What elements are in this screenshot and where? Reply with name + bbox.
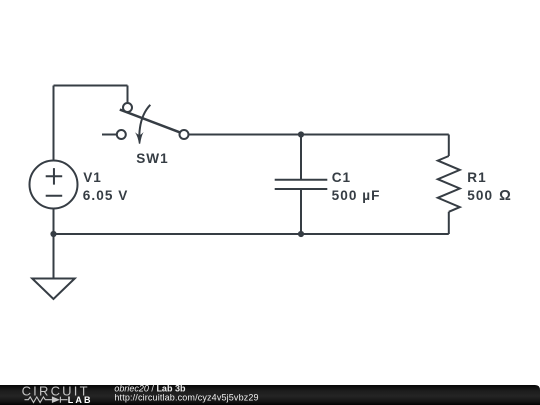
ground symbol	[32, 279, 74, 300]
switch SW1 left throw stub wire	[102, 134, 117, 136]
svg-text:SW1: SW1	[136, 151, 169, 166]
switch SW1 right throw terminal circle	[180, 130, 189, 139]
node A junction dot (C1 top)	[298, 131, 304, 137]
resistor R1 bottom lead	[448, 212, 450, 234]
V1 plus sign	[46, 168, 63, 185]
capacitor C1 top lead	[300, 135, 302, 180]
V1 minus sign	[46, 195, 63, 197]
footer bar	[0, 385, 540, 405]
svg-text:6.05 V: 6.05 V	[83, 188, 129, 203]
svg-text:LAB: LAB	[68, 395, 93, 405]
capacitor C1 bottom plate	[275, 188, 328, 190]
CircuitLab logo resistor-diode squiggle	[25, 397, 68, 403]
node junction dot (V1 minus / ground)	[50, 231, 56, 237]
svg-text:R1: R1	[467, 170, 486, 185]
svg-text:C1: C1	[332, 170, 351, 185]
switch SW1 pole terminal circle	[123, 103, 132, 112]
wire bottom rail	[54, 233, 449, 235]
wire top-left horizontal (V1 top to SW1 pole)	[54, 85, 128, 87]
switch SW1 blade	[120, 110, 180, 133]
voltage source V1 circle	[30, 161, 78, 209]
resistor R1 zigzag body	[438, 156, 460, 212]
voltage source V1 bottom lead	[53, 209, 55, 235]
svg-text:V1: V1	[83, 170, 102, 185]
wire node A to R1 top	[301, 134, 449, 136]
svg-text:http://circuitlab.com/cyz4v5j5: http://circuitlab.com/cyz4v5j5vbz29	[114, 392, 258, 402]
svg-text:500 Ω: 500 Ω	[467, 188, 512, 204]
wire SW1 right terminal to node A	[189, 134, 302, 136]
CircuitLab logo diode triangle	[52, 396, 60, 403]
capacitor C1 bottom lead	[300, 189, 302, 234]
wire left vertical (top rail down to V1 plus terminal)	[53, 86, 55, 161]
switch SW1 arrow head	[135, 132, 144, 144]
capacitor C1 top plate	[275, 179, 328, 181]
resistor R1 top lead	[448, 135, 450, 157]
switch SW1 left throw terminal circle	[117, 130, 126, 139]
wire V1 node to ground	[53, 234, 55, 279]
switch SW1 actuation arrow arc	[139, 105, 150, 136]
svg-text:500 µF: 500 µF	[332, 188, 381, 203]
wire SW1 pole drop	[127, 86, 129, 104]
node B junction dot (C1 bottom)	[298, 231, 304, 237]
